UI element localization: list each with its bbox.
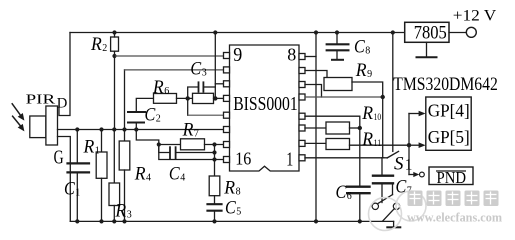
wire pin9 row: [115, 55, 224, 57]
arrow to GP[5]: [409, 144, 420, 146]
svg-text:6: 6: [164, 86, 169, 97]
node R7 left: [157, 142, 161, 146]
PND box: [429, 167, 473, 185]
pin 4 box (left row4): [224, 95, 230, 101]
pin r7 box: [299, 140, 305, 146]
wire R5 to pin4: [214, 97, 224, 99]
node R2/R3 column on S row: [112, 127, 116, 131]
pin 5 box (left row5): [224, 112, 230, 118]
svg-text:2: 2: [156, 113, 161, 124]
switch lower contact leads (jack): [378, 195, 392, 204]
node R2 top: [112, 30, 116, 34]
wire R9 column down: [382, 97, 384, 158]
svg-text:TMS320DM642: TMS320DM642: [393, 74, 498, 95]
node C5 bottom: [212, 219, 216, 223]
pin r3 box: [299, 82, 305, 88]
svg-text:8: 8: [287, 44, 296, 64]
wire GP distribution column: [408, 114, 410, 175]
svg-text:+12 V: +12 V: [453, 8, 497, 25]
svg-text:R: R: [361, 103, 373, 124]
node R10 right: [358, 126, 362, 130]
wire PIR G terminal to ground rail: [58, 137, 71, 222]
resistor R2: [111, 37, 119, 51]
resistor R5 (unlabeled, parallel with C3): [193, 93, 214, 103]
resistor R4: [119, 141, 130, 170]
svg-text:4: 4: [180, 172, 185, 183]
resistor R11: [305, 142, 326, 144]
svg-text:R: R: [83, 137, 95, 158]
wire C6 column: [359, 128, 361, 186]
svg-text:8: 8: [236, 186, 241, 197]
svg-text:C: C: [145, 104, 156, 125]
svg-text:1: 1: [286, 149, 293, 170]
svg-text:C: C: [190, 59, 201, 80]
svg-text:R: R: [152, 77, 164, 98]
capacitor C6: [347, 185, 369, 187]
node R1 top: [99, 127, 103, 131]
wire R2 column down to S row: [114, 56, 116, 130]
svg-text:G: G: [54, 147, 64, 168]
ground symbol (right end of ground rail): [393, 221, 395, 227]
wire R8 column: [214, 145, 216, 177]
svg-text:C: C: [64, 179, 75, 200]
svg-text:C: C: [225, 198, 236, 219]
resistor R3: [113, 130, 115, 184]
contact circle right: [393, 203, 399, 209]
capacitor C7: [381, 158, 383, 175]
node R4 column on S row: [122, 127, 126, 131]
svg-text:7805: 7805: [414, 22, 447, 43]
wire chip-left row2: [124, 70, 126, 141]
svg-text:11: 11: [374, 139, 382, 149]
wire S-row to R7 row jog: [136, 130, 159, 145]
arrow to GP[4]: [409, 113, 420, 115]
svg-text:3: 3: [127, 210, 132, 221]
svg-text:R: R: [134, 163, 146, 184]
pin 8 box (right row1): [299, 54, 305, 60]
resistor R10: [305, 127, 326, 129]
capacitor C8: [336, 33, 338, 44]
node column top: [213, 30, 217, 34]
svg-text:9: 9: [233, 45, 242, 66]
wire pin1 row: [305, 157, 384, 159]
resistor R9: [324, 78, 352, 91]
node R7 right: [212, 142, 216, 146]
voltage regulator U2 7805: [405, 22, 449, 42]
capacitor C5: [214, 196, 216, 204]
wire PIR S terminal row: [58, 129, 224, 131]
PIR sensor body: [30, 116, 46, 138]
node C4 right: [212, 150, 216, 154]
pin r5 box: [299, 113, 305, 119]
svg-text:3: 3: [202, 68, 207, 79]
contact circle left: [372, 203, 378, 209]
node GP column: [407, 143, 411, 147]
arrow to PND: [409, 174, 415, 176]
wire R9 right to column: [352, 82, 383, 97]
wire pin8 to top rail column: [305, 56, 316, 58]
svg-text:S: S: [394, 154, 404, 175]
wire pin r4 row: [305, 96, 383, 98]
node A (R6/C3/R5 junction): [186, 96, 190, 100]
pin r4 box: [299, 94, 305, 100]
pin 2 box (left row2): [224, 67, 230, 73]
resistor R7: [181, 139, 205, 150]
svg-text:BISS0001: BISS0001: [233, 94, 298, 115]
wire pin r5 row to R10 right: [305, 116, 360, 128]
node C3 right: [213, 96, 217, 100]
svg-text:8: 8: [365, 45, 370, 56]
svg-text:D: D: [57, 95, 68, 111]
capacitor C4: [159, 145, 170, 153]
pin 9 box: [224, 53, 230, 59]
pin r2 box: [299, 68, 305, 74]
node R4 bottom: [122, 219, 126, 223]
node R3 bottom: [112, 219, 116, 223]
node C2 bottom: [134, 127, 138, 131]
capacitor C3: [188, 87, 199, 98]
svg-text:R: R: [182, 119, 194, 140]
wire vdd/gnd column x316: [315, 33, 317, 222]
node C1 top: [75, 127, 79, 131]
wire R7 row: [159, 144, 181, 146]
node pin16 row / R8 column: [212, 157, 216, 161]
svg-text:C: C: [336, 182, 347, 203]
svg-text:R: R: [223, 177, 235, 198]
wire pin r2 to R9: [305, 71, 327, 78]
watermark logo circles: [369, 198, 402, 231]
pin 6 box (left row6): [224, 127, 230, 133]
svg-text:1: 1: [75, 188, 80, 199]
svg-text:PIR: PIR: [26, 92, 57, 107]
svg-text:1: 1: [405, 157, 413, 174]
pin 3 box (left row3): [224, 81, 230, 87]
pin 16 box: [224, 157, 230, 163]
node C1 bottom: [75, 219, 79, 223]
arrow IR ray 1: [12, 104, 20, 115]
node R1 bottom: [99, 219, 103, 223]
svg-text:1: 1: [95, 146, 100, 157]
node C8 top: [335, 30, 339, 34]
wire 7805 column: [392, 33, 394, 152]
capacitor C2: [136, 98, 153, 112]
node C6 bottom: [358, 219, 362, 223]
watermark CJK glyph blocks: [408, 191, 499, 207]
svg-text:R: R: [361, 129, 373, 150]
svg-text:4: 4: [146, 172, 151, 183]
svg-text:7: 7: [194, 128, 199, 139]
wire pin r3 short stub: [305, 85, 322, 98]
wire top rail to C3/R5 junction column: [214, 33, 216, 99]
terminal +12V circle: [466, 27, 476, 37]
svg-text:C: C: [354, 36, 365, 57]
resistor R1: [101, 130, 103, 153]
svg-text:C: C: [169, 163, 180, 184]
svg-text:5: 5: [236, 207, 241, 218]
arrow IR ray 2: [13, 116, 21, 126]
pin r6 box: [299, 125, 305, 131]
switch S1: [384, 157, 387, 159]
pin 7 box (left row7): [224, 142, 230, 148]
pin 1 box: [299, 155, 305, 161]
svg-text:6: 6: [347, 191, 352, 202]
wire 7805 output: [449, 32, 466, 34]
svg-text:R: R: [114, 201, 126, 222]
op-amp U1 BISS0001 chip body: [230, 45, 300, 171]
ground 7805: [426, 42, 428, 57]
node R2 bottom: [112, 54, 116, 58]
svg-text:9: 9: [367, 69, 372, 80]
svg-text:GP[5]: GP[5]: [428, 127, 470, 147]
svg-text:2: 2: [102, 43, 107, 54]
wire left frame vertical (PIR D net): [59, 33, 70, 116]
terminal circle PND input: [420, 172, 425, 177]
GP[4]/GP[5] box: [426, 97, 471, 150]
wire R6 to node A: [177, 97, 193, 99]
svg-text:16: 16: [235, 149, 251, 169]
wire bottom ground rail: [70, 220, 393, 222]
node x316 top: [314, 30, 318, 34]
node 7805 column top: [391, 30, 395, 34]
capacitor C1: [76, 130, 78, 164]
wire pin5 row from node A: [187, 98, 189, 115]
wire pin3 stub to column: [215, 83, 223, 85]
svg-text:www.elecfans.com: www.elecfans.com: [407, 210, 502, 225]
svg-text:R: R: [90, 34, 102, 55]
resistor R6: [154, 94, 177, 104]
wire right contact to ground rail: [383, 209, 394, 221]
svg-text:10: 10: [374, 113, 382, 123]
wire pin16 row: [159, 145, 224, 160]
node R9 column row4: [381, 95, 385, 99]
node x316 bottom: [314, 219, 318, 223]
wire C7 bottom to jack contact: [392, 184, 394, 195]
wire top supply rail: [70, 32, 405, 34]
svg-text:R: R: [355, 60, 367, 81]
resistor R8: [209, 176, 220, 196]
svg-text:GP[4]: GP[4]: [428, 101, 470, 121]
wire R11 right row to S1/GP junction: [350, 144, 410, 146]
